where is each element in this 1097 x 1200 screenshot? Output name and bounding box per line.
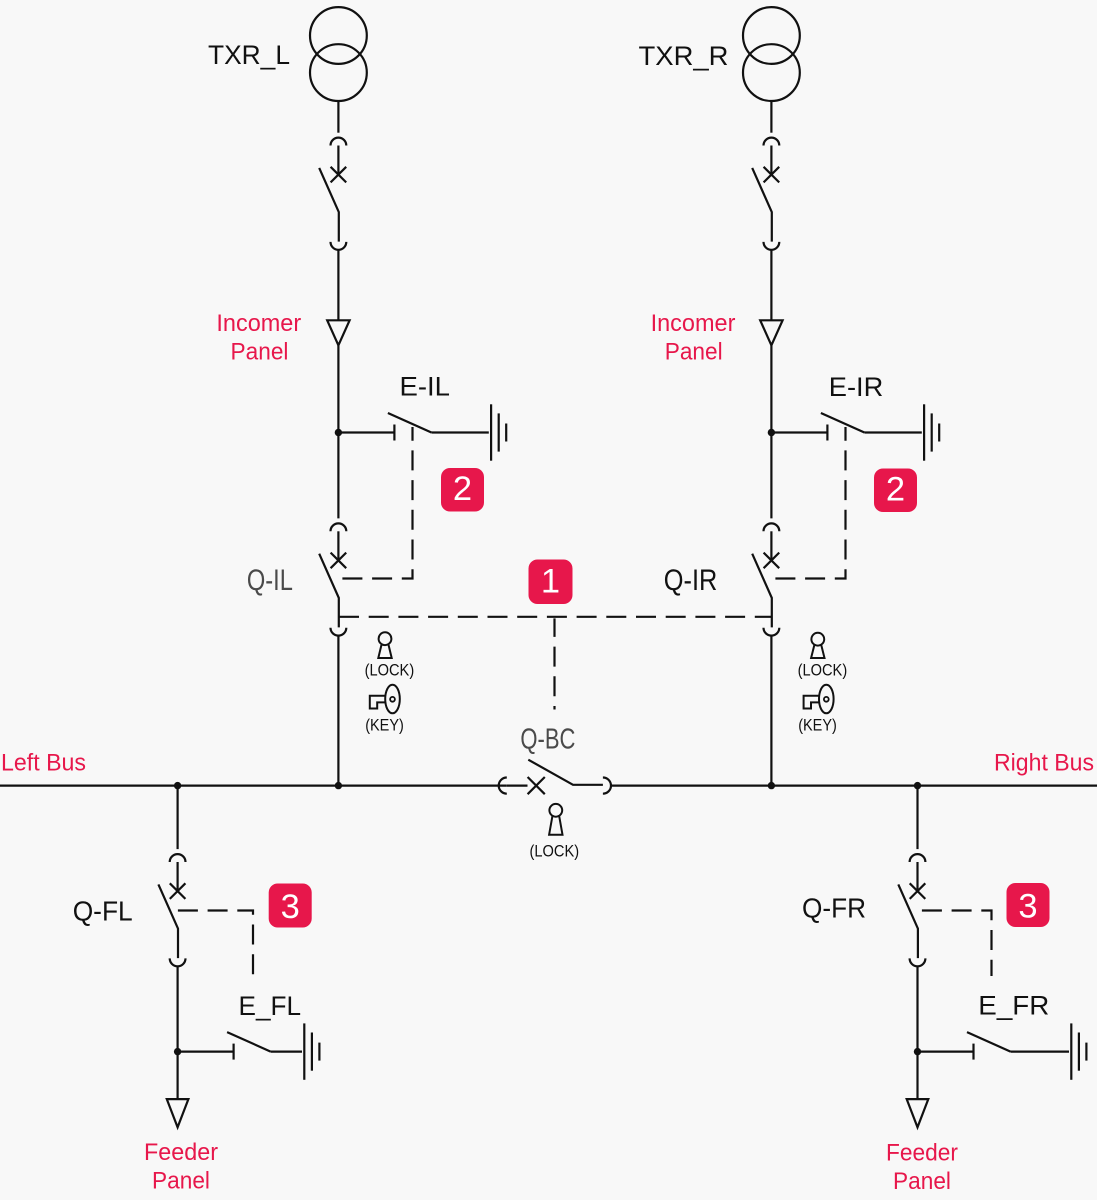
svg-text:Q-FR: Q-FR [802, 893, 866, 924]
svg-text:(LOCK): (LOCK) [530, 842, 580, 861]
svg-text:(KEY): (KEY) [798, 716, 837, 735]
svg-text:Panel: Panel [231, 339, 289, 366]
svg-text:E-IL: E-IL [400, 371, 451, 401]
svg-text:Q-IR: Q-IR [664, 564, 718, 597]
svg-text:E-IR: E-IR [829, 372, 884, 402]
svg-text:Feeder: Feeder [886, 1139, 958, 1166]
svg-text:(LOCK): (LOCK) [365, 661, 415, 680]
svg-text:Q-FL: Q-FL [73, 896, 133, 927]
svg-text:(LOCK): (LOCK) [798, 661, 848, 680]
svg-text:E_FR: E_FR [978, 991, 1049, 1021]
svg-text:TXR_L: TXR_L [208, 40, 290, 70]
svg-text:3: 3 [281, 888, 300, 926]
svg-text:TXR_R: TXR_R [639, 41, 729, 71]
svg-text:1: 1 [541, 563, 560, 601]
svg-text:Right Bus: Right Bus [994, 750, 1094, 777]
svg-text:3: 3 [1018, 888, 1037, 926]
svg-text:Feeder: Feeder [144, 1139, 218, 1166]
svg-text:2: 2 [453, 470, 472, 508]
svg-text:Q-IL: Q-IL [247, 564, 293, 597]
svg-text:Left Bus: Left Bus [1, 750, 86, 777]
svg-text:Incomer: Incomer [651, 310, 736, 337]
svg-text:Q-BC: Q-BC [520, 724, 575, 756]
svg-text:2: 2 [886, 471, 905, 509]
svg-text:E_FL: E_FL [239, 991, 302, 1021]
svg-text:(KEY): (KEY) [365, 716, 404, 735]
svg-text:Incomer: Incomer [216, 310, 301, 337]
svg-text:Panel: Panel [893, 1168, 951, 1195]
svg-text:Panel: Panel [665, 339, 723, 366]
svg-text:Panel: Panel [152, 1168, 210, 1195]
